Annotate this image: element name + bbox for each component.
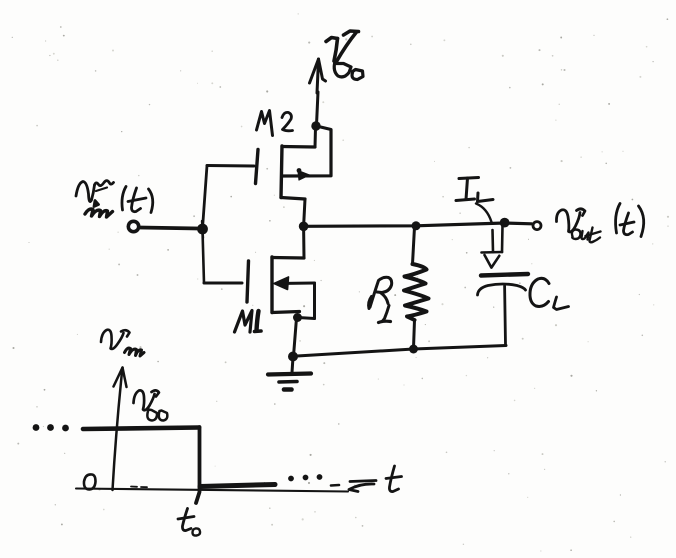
waveform: low level trace [200, 485, 275, 487]
resistor R_L [404, 227, 429, 348]
R_L zigzag body [404, 264, 429, 320]
waveform: y axis with arrow [113, 368, 127, 491]
wire input node down to M1 gate [203, 230, 205, 283]
label R_L [369, 277, 392, 322]
M2 source loop [283, 127, 331, 177]
wire M1 drain up to output node [302, 227, 305, 258]
junction dot M2 source / VDD node [311, 121, 320, 130]
waveform: high level trace [83, 428, 199, 430]
wire input lead [140, 228, 200, 229]
M2 bottom lead [281, 198, 305, 200]
M1 source arrowhead (points left) [274, 277, 289, 290]
leader curve from I_L to node [476, 204, 492, 223]
wire output horizontal [305, 223, 532, 226]
label v_in(t) [76, 181, 153, 217]
label M1 [235, 311, 262, 333]
power VDD arrow [310, 59, 326, 93]
label M2 [257, 111, 293, 136]
M1 drain top horizontal [272, 256, 304, 260]
capacitor C_L [478, 274, 529, 345]
R_L top lead [413, 227, 415, 264]
waveform: label v_in axis [101, 330, 144, 356]
terminal input circle [128, 221, 138, 231]
waveform: t axis arrow [349, 481, 376, 492]
label C_L [530, 278, 569, 309]
M1 channel bar [270, 257, 273, 313]
ground symbol [268, 357, 311, 390]
waveform: x axis [76, 489, 348, 492]
junction dot R_L bottom [409, 345, 418, 354]
waveform: axis end dash [331, 484, 339, 487]
M1 channel bottom lead [272, 312, 300, 313]
M2 drain stub from node [314, 128, 318, 148]
waveform: label t0 [178, 509, 200, 536]
junction dot C_L / I_L node [500, 218, 510, 228]
junction dot output node at drains [299, 222, 309, 232]
waveform: label O origin [84, 474, 96, 489]
waveform: label VDD [134, 390, 168, 420]
M2 source arrow (points right) [298, 171, 310, 181]
junction dot M1 source node [293, 313, 302, 322]
current arrow I_L (down, open head) [482, 226, 503, 268]
M1 source bottom lead [298, 318, 315, 319]
wire M2 drain down to output node [304, 199, 305, 226]
waveform: dots right [288, 474, 322, 481]
wire ground rail to load bottoms [297, 346, 506, 357]
C_L bottom plate (curved) [478, 284, 526, 295]
M2 drain top horizontal [282, 145, 315, 149]
transistor M2 (PMOS) [256, 127, 332, 200]
M1 source arrow line [277, 282, 315, 286]
wire M1 source down to ground [294, 318, 297, 356]
waveform: step down trace [196, 427, 200, 503]
R_L bottom lead [414, 320, 415, 348]
C_L bottom lead [503, 286, 507, 345]
junction dot input node [197, 224, 208, 235]
wire input node up to gate wire [203, 166, 208, 229]
wire VDD down to M2 source node [317, 92, 319, 125]
junction dot ground node [288, 352, 298, 362]
wire M2 gate horizontal [207, 164, 254, 168]
C_L top plate [481, 274, 528, 276]
label v_out(t) [556, 204, 643, 243]
M2 gate bar [256, 150, 259, 184]
waveform: label t [386, 466, 402, 492]
junction dot R_L top [412, 221, 421, 230]
M1 gate bar [247, 261, 249, 302]
transistor M1 (NMOS) [247, 257, 315, 319]
waveform: dots left [33, 424, 69, 431]
wire M1 gate horizontal [204, 282, 242, 285]
label I_L [456, 178, 493, 202]
power VDD label [326, 31, 363, 80]
M2 channel bar [281, 146, 282, 198]
waveform: small dashes on axis [131, 486, 147, 489]
terminal output circle [533, 222, 541, 230]
M1 source right vertical [313, 283, 316, 319]
